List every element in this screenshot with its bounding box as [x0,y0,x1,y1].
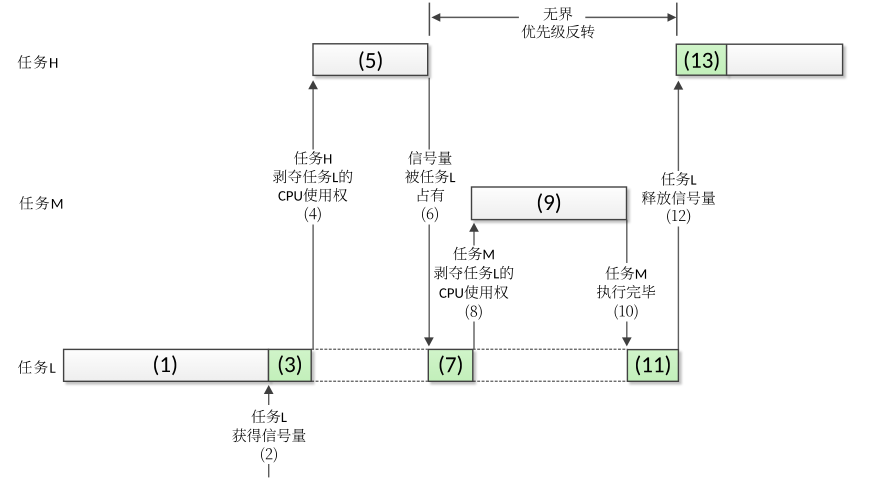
label (2): task L takes semaphore [230,405,308,464]
arrowhead (2) up [264,385,274,394]
box label (1) [154,355,176,375]
label (8): task M preempts task L [432,246,516,322]
row label 任务M [19,196,62,210]
task L box (1) [64,349,269,381]
caption 无界 [544,7,573,21]
wire (6): H box(5) down to L box(7) [428,78,430,340]
wire (4): L box(3) up to H box(5) [312,89,314,350]
box label (13) [685,51,719,71]
dashed preempted bottom left [311,380,427,382]
arrowhead (4) up [308,80,318,89]
arrowhead (6) down [424,337,434,346]
boundary marker line left [428,3,430,36]
double arrow shaft left segment [440,16,519,18]
double arrow right head [668,13,677,22]
double arrow left head [431,13,440,22]
wire (8): L box(7) up to M box(9) [473,230,475,349]
task H trailing box [727,44,843,75]
box label (11) [636,355,670,375]
double arrow shaft right segment [585,16,668,18]
wire (12): L box(11) up to H box(13) [677,88,679,350]
wire (10): M box(9) down to L box(11) [626,220,628,340]
task H box (13) green [676,44,726,75]
row label 任务L [18,360,55,374]
box label (5) [360,51,382,71]
task L box (11) green [627,350,678,382]
wire (2): semaphore take, below L box(3) [268,393,270,477]
label (10): task M finishes [594,263,658,322]
arrowhead (8) up [469,223,479,232]
dashed preempted top right [473,348,628,350]
boundary marker line right [676,3,678,36]
arrowhead (12) up [674,81,684,90]
caption 优先级反转 [522,25,595,39]
label (4): task H preempts task L [271,150,355,225]
task H box (5) [313,44,428,76]
box label (9) [538,193,560,213]
arrowhead (10) down [622,337,632,346]
task L box (7) green [428,349,473,381]
task L box (3) green [269,349,312,381]
task M box (9) [472,187,627,220]
dashed preempted bottom right [473,380,628,382]
box label (7) [440,355,462,375]
box label (3) [279,355,301,375]
row label 任务H [18,55,58,69]
label (12): task L releases semaphore [640,171,718,227]
dashed preempted top left [311,348,427,350]
label (6): semaphore held by task L [399,150,461,225]
